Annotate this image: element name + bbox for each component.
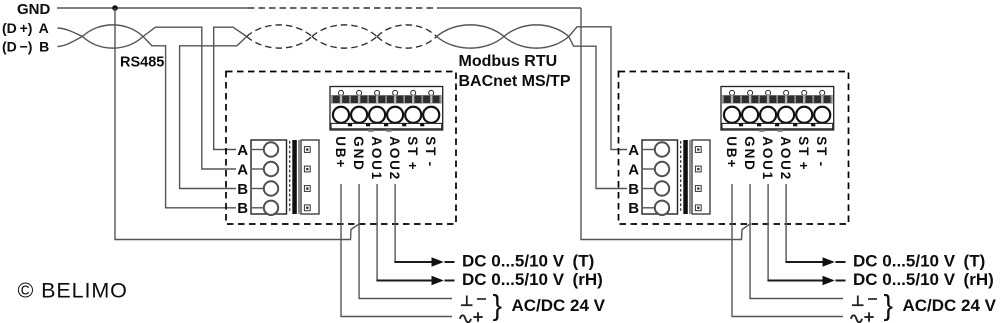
wire: sensor 1 GND lead to AC/DC 24V minus	[359, 184, 452, 299]
svg-text:}: }	[493, 290, 503, 322]
twisted pair eye 6 (solid) lower strand	[504, 37, 569, 49]
wire: sensor 1 AOU1 lead vertical	[376, 184, 378, 280]
wire: B incoming tap to sensor 1 terminal B2	[143, 37, 236, 208]
svg-text:A: A	[237, 142, 248, 159]
twisted pair eye 6 (solid) upper strand	[504, 25, 569, 37]
sensor 2 6-pole terminal block U1-2	[721, 87, 834, 132]
arrowhead: sensor 1 rH output	[432, 276, 444, 285]
symbol: sensor 2 earth/minus of AC/DC 24V	[852, 296, 877, 306]
wire: sensor 2 GND lead to AC/DC 24V minus	[750, 184, 843, 299]
wire stub to sensor 2 screw terminal	[642, 149, 655, 151]
wire: GND bus dashed middle segment	[248, 7, 438, 9]
arrowhead: sensor 2 rH output	[823, 276, 835, 285]
wire stub to sensor 1 screw terminal	[251, 188, 264, 190]
wire stub to sensor 2 screw terminal	[642, 188, 655, 190]
svg-text:B: B	[237, 200, 248, 217]
wire stub to sensor 1 screw terminal	[251, 168, 264, 170]
wire: B continuation from sensor 1 terminal B1 back to bus	[180, 37, 247, 189]
svg-text:AOU1: AOU1	[760, 136, 775, 181]
twisted pair eye 2 (dashed) lower strand	[247, 37, 312, 49]
symbol: sensor 1 AC tilde / plus of AC/DC 24V	[460, 312, 483, 322]
svg-text:DC 0...5/10 V (rH): DC 0...5/10 V (rH)	[462, 270, 603, 289]
svg-text:}: }	[884, 290, 894, 322]
wire: GND drop to sensor 2 (down, right, jog up to GND lead)	[581, 8, 750, 240]
wire: GND bus solid left segment	[57, 7, 248, 9]
wire: A continuation from sensor 1 terminal A1 back to bus	[214, 27, 247, 149]
arrowhead: sensor 1 T output	[432, 257, 444, 266]
wire stub to sensor 1 screw terminal	[251, 207, 264, 209]
twisted pair eye 1 (solid) lower strand	[83, 37, 144, 49]
svg-text:AC/DC 24 V: AC/DC 24 V	[512, 296, 606, 315]
wire: sensor 2 AOU1 lead vertical	[767, 184, 769, 280]
twisted pair eye 1 (solid) upper strand	[83, 25, 144, 37]
sensor 1 6-pole terminal block U1-1	[330, 87, 443, 132]
wire: sensor 2 AOU2 lead vertical	[785, 184, 787, 261]
sensor 1 dashed enclosure	[226, 72, 456, 225]
svg-text:DC 0...5/10 V (T): DC 0...5/10 V (T)	[853, 252, 985, 271]
wire: sensor 1 AOU2 lead to T output (thick)	[394, 261, 431, 263]
wire stub to sensor 1 screw terminal	[251, 149, 264, 151]
svg-text:B: B	[237, 181, 248, 198]
svg-text:ST +: ST +	[796, 136, 811, 171]
wire: A (D+) lead-in from label	[58, 28, 83, 37]
svg-text:ST -: ST -	[814, 136, 829, 168]
twisted pair eye 4 (dashed) lower strand	[377, 37, 437, 49]
twisted pair eye 5 (solid) upper strand	[437, 25, 504, 37]
wire stub to sensor 2 screw terminal	[642, 168, 655, 170]
svg-text:ST +: ST +	[405, 136, 420, 171]
twisted pair eye 3 (dashed) upper strand	[312, 25, 377, 37]
wire: B lead into sensor 2 terminal B	[569, 37, 627, 189]
svg-text:B: B	[628, 200, 639, 217]
wire: GND bus solid right segment	[438, 7, 581, 9]
svg-text:A: A	[628, 161, 639, 178]
svg-text:(D −) B: (D −) B	[2, 38, 49, 54]
svg-text:GND: GND	[17, 1, 51, 18]
svg-text:BACnet MS/TP: BACnet MS/TP	[459, 73, 571, 90]
wire: sensor 1 AOU2 lead vertical	[394, 184, 396, 261]
svg-text:ST -: ST -	[423, 136, 438, 168]
sensor 2 4-pole plug connector J1-2	[642, 140, 710, 215]
wire: sensor 2 AOU1 lead to rH output (thick)	[767, 280, 822, 282]
wire: A incoming tap to sensor 1 terminal A2	[143, 27, 236, 169]
svg-text:AOU2: AOU2	[387, 136, 402, 181]
twisted pair eye 2 (dashed) upper strand	[247, 25, 312, 37]
svg-text:AC/DC 24 V: AC/DC 24 V	[903, 296, 997, 315]
wire: sensor 1 AOU1 lead to rH output (thick)	[376, 280, 431, 282]
svg-text:Modbus RTU: Modbus RTU	[459, 53, 558, 70]
svg-text:GND: GND	[351, 136, 366, 171]
twisted pair eye 4 (dashed) upper strand	[377, 25, 437, 37]
svg-text:AOU2: AOU2	[778, 136, 793, 181]
symbol: sensor 2 AC tilde / plus of AC/DC 24V	[851, 312, 874, 322]
wire: GND drop to sensor 1 (down, right, jog up to GND lead)	[115, 8, 359, 240]
wire: B (D-) lead-in from label	[58, 37, 83, 47]
svg-text:DC 0...5/10 V (T): DC 0...5/10 V (T)	[462, 252, 594, 271]
twisted pair eye 5 (solid) lower strand	[437, 37, 504, 49]
junction dot on GND bus	[112, 5, 118, 11]
arrowhead: sensor 2 T output	[823, 257, 835, 266]
svg-text:RS485: RS485	[120, 55, 164, 71]
wire: sensor 1 UB+ lead to AC/DC 24V plus	[341, 184, 452, 317]
svg-text:A: A	[628, 142, 639, 159]
svg-text:DC 0...5/10 V (rH): DC 0...5/10 V (rH)	[853, 270, 994, 289]
svg-text:GND: GND	[742, 136, 757, 171]
sensor 1 4-pole plug connector J1-1	[251, 140, 319, 215]
svg-text:© BELIMO: © BELIMO	[18, 279, 128, 303]
svg-text:A: A	[237, 161, 248, 178]
svg-text:(D +) A: (D +) A	[2, 20, 49, 36]
svg-text:UB+: UB+	[333, 136, 348, 169]
twisted pair eye 3 (dashed) lower strand	[312, 37, 377, 49]
svg-text:UB+: UB+	[724, 136, 739, 169]
svg-text:B: B	[628, 181, 639, 198]
svg-text:AOU1: AOU1	[369, 136, 384, 181]
wire: A lead into sensor 2 terminal A	[569, 27, 627, 150]
wire: sensor 2 UB+ lead to AC/DC 24V plus	[732, 184, 843, 317]
sensor 2 dashed enclosure	[619, 72, 849, 225]
symbol: sensor 1 earth/minus of AC/DC 24V	[461, 296, 486, 306]
wire: sensor 2 AOU2 lead to T output (thick)	[785, 261, 822, 263]
wire stub to sensor 2 screw terminal	[642, 207, 655, 209]
